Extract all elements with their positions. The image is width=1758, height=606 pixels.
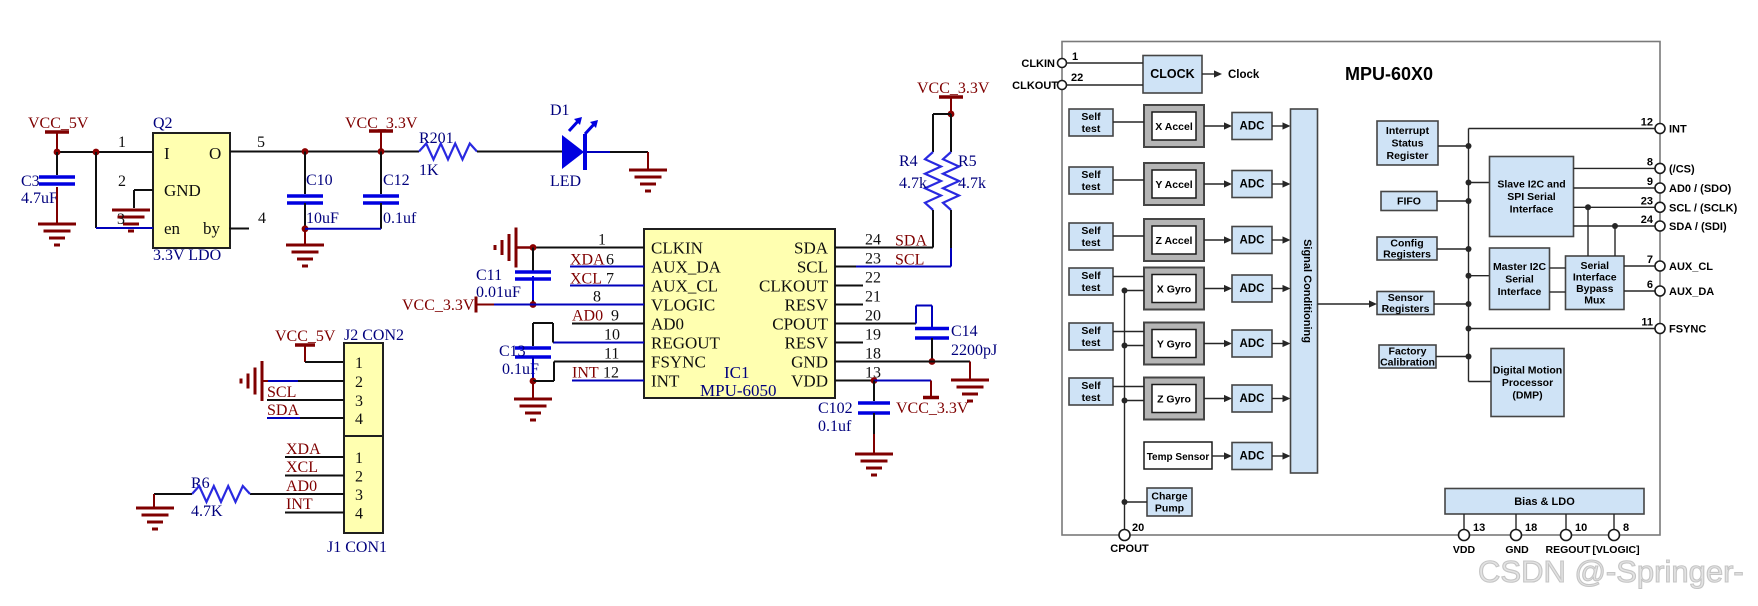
svg-text:VDD: VDD [791, 372, 828, 391]
svg-text:VCC_3.3V: VCC_3.3V [917, 80, 990, 97]
svg-text:CPOUT: CPOUT [772, 315, 828, 334]
svg-text:R5: R5 [958, 153, 977, 170]
svg-text:Z Gyro: Z Gyro [1157, 394, 1191, 406]
svg-text:C14: C14 [951, 323, 978, 340]
svg-text:ADC: ADC [1240, 235, 1265, 247]
svg-text:0.1uf: 0.1uf [818, 418, 852, 435]
svg-text:Y Accel: Y Accel [1155, 179, 1192, 191]
svg-text:9: 9 [611, 308, 619, 325]
svg-text:C10: C10 [306, 172, 333, 189]
svg-text:8: 8 [1647, 156, 1653, 168]
svg-text:11: 11 [604, 346, 619, 363]
svg-text:4: 4 [258, 210, 266, 227]
svg-text:0.1uf: 0.1uf [383, 210, 417, 227]
svg-text:23: 23 [1641, 195, 1653, 207]
svg-text:4.7k: 4.7k [899, 175, 927, 192]
svg-text:22: 22 [865, 270, 881, 287]
svg-text:ADC: ADC [1240, 451, 1265, 463]
svg-text:C11: C11 [476, 267, 502, 284]
svg-text:Serial: Serial [1505, 273, 1534, 285]
svg-text:INT: INT [286, 496, 313, 513]
svg-text:FIFO: FIFO [1397, 196, 1421, 208]
svg-text:11: 11 [1641, 317, 1653, 329]
svg-text:X Gyro: X Gyro [1157, 284, 1191, 296]
svg-text:1: 1 [355, 355, 363, 372]
svg-text:SCL: SCL [267, 384, 296, 401]
svg-text:3: 3 [355, 393, 363, 410]
svg-text:Temp Sensor: Temp Sensor [1147, 452, 1210, 463]
svg-text:O: O [209, 144, 221, 163]
svg-text:Slave I2C and: Slave I2C and [1497, 179, 1565, 191]
svg-text:1: 1 [1072, 51, 1078, 63]
svg-text:Self: Self [1081, 111, 1101, 123]
svg-text:SDA / (SDI): SDA / (SDI) [1669, 221, 1727, 233]
svg-text:C12: C12 [383, 172, 410, 189]
svg-text:2: 2 [355, 469, 363, 486]
svg-text:INT: INT [651, 372, 680, 391]
svg-text:CLKOUT: CLKOUT [759, 277, 829, 296]
svg-text:Self: Self [1081, 169, 1101, 181]
svg-text:9: 9 [1647, 176, 1653, 188]
svg-text:Y Gyro: Y Gyro [1157, 339, 1191, 351]
svg-text:AUX_CL: AUX_CL [651, 277, 718, 296]
svg-text:J1 CON1: J1 CON1 [327, 539, 387, 556]
svg-text:Q2: Q2 [153, 115, 173, 132]
svg-text:Calibration: Calibration [1380, 357, 1435, 369]
svg-text:Bias & LDO: Bias & LDO [1514, 496, 1575, 508]
svg-text:Interrupt: Interrupt [1386, 125, 1430, 137]
svg-text:test: test [1082, 237, 1101, 249]
svg-text:ADC: ADC [1240, 393, 1265, 405]
svg-text:4.7k: 4.7k [958, 175, 986, 192]
svg-text:REGOUT: REGOUT [651, 334, 721, 353]
svg-text:12: 12 [603, 365, 619, 382]
svg-text:GND: GND [164, 181, 201, 200]
svg-text:ADC: ADC [1240, 338, 1265, 350]
svg-text:Self: Self [1081, 270, 1101, 282]
svg-text:test: test [1082, 123, 1101, 135]
svg-text:24: 24 [1641, 214, 1654, 226]
svg-text:20: 20 [865, 308, 881, 325]
svg-text:Self: Self [1081, 380, 1101, 392]
svg-text:12: 12 [1641, 117, 1653, 129]
svg-text:Signal Conditioning: Signal Conditioning [1301, 239, 1313, 343]
svg-text:VCC_3.3V: VCC_3.3V [402, 297, 475, 314]
svg-text:CSDN @-Springer-: CSDN @-Springer- [1478, 554, 1744, 589]
svg-text:10: 10 [604, 327, 620, 344]
svg-text:(DMP): (DMP) [1512, 390, 1542, 402]
svg-text:test: test [1082, 392, 1101, 404]
svg-text:Clock: Clock [1228, 69, 1260, 81]
svg-text:en: en [164, 219, 181, 238]
svg-text:Serial: Serial [1580, 260, 1609, 272]
svg-text:Registers: Registers [1382, 303, 1430, 315]
svg-text:VLOGIC: VLOGIC [651, 296, 715, 315]
svg-text:7: 7 [1647, 254, 1653, 266]
svg-text:CLKOUT: CLKOUT [1012, 80, 1058, 92]
svg-text:AD0: AD0 [651, 315, 684, 334]
svg-text:X Accel: X Accel [1155, 121, 1193, 133]
svg-text:VDD: VDD [1453, 544, 1476, 556]
svg-text:FSYNC: FSYNC [651, 353, 706, 372]
svg-text:1K: 1K [419, 162, 439, 179]
svg-text:ADC: ADC [1240, 179, 1265, 191]
svg-text:3: 3 [355, 487, 363, 504]
svg-text:test: test [1082, 181, 1101, 193]
svg-text:8: 8 [1623, 522, 1629, 534]
svg-text:I: I [164, 144, 170, 163]
svg-text:C3: C3 [21, 173, 40, 190]
svg-text:VCC_5V: VCC_5V [275, 328, 336, 345]
svg-text:RESV: RESV [785, 296, 829, 315]
svg-text:AUX_CL: AUX_CL [1669, 261, 1713, 273]
svg-text:SDA: SDA [267, 402, 299, 419]
svg-text:Self: Self [1081, 325, 1101, 337]
svg-text:FSYNC: FSYNC [1669, 324, 1706, 336]
svg-text:test: test [1082, 282, 1101, 294]
svg-text:18: 18 [865, 346, 881, 363]
svg-text:XCL: XCL [286, 459, 318, 476]
svg-text:22: 22 [1071, 72, 1083, 84]
svg-text:ADC: ADC [1240, 121, 1265, 133]
svg-text:AUX_DA: AUX_DA [651, 258, 722, 277]
svg-text:23: 23 [865, 251, 881, 268]
svg-text:R4: R4 [899, 153, 918, 170]
svg-text:Self: Self [1081, 225, 1101, 237]
svg-text:by: by [203, 219, 221, 238]
svg-text:1: 1 [598, 232, 606, 249]
svg-text:INT: INT [1669, 124, 1687, 136]
svg-text:Charge: Charge [1151, 491, 1187, 503]
svg-text:4.7uF: 4.7uF [21, 190, 58, 207]
svg-text:C13: C13 [499, 343, 526, 360]
svg-text:MPU-60X0: MPU-60X0 [1345, 64, 1433, 84]
svg-text:Register: Register [1386, 150, 1428, 162]
svg-text:VCC_3.3V: VCC_3.3V [896, 400, 969, 417]
svg-text:Bypass: Bypass [1576, 283, 1614, 295]
svg-text:Interface: Interface [1573, 272, 1617, 284]
svg-text:13: 13 [1473, 522, 1485, 534]
svg-text:INT: INT [572, 365, 599, 382]
svg-text:2: 2 [118, 173, 126, 190]
svg-text:RESV: RESV [785, 334, 829, 353]
svg-text:C102: C102 [818, 400, 853, 417]
svg-text:AD0: AD0 [572, 308, 603, 325]
svg-text:LED: LED [550, 173, 581, 190]
svg-text:1: 1 [355, 450, 363, 467]
svg-text:10uF: 10uF [306, 210, 339, 227]
svg-text:AD0: AD0 [286, 478, 317, 495]
svg-text:2200pJ: 2200pJ [951, 342, 997, 359]
svg-text:D1: D1 [550, 102, 570, 119]
svg-text:4.7K: 4.7K [191, 503, 223, 520]
svg-text:SCL / (SCLK): SCL / (SCLK) [1669, 202, 1738, 214]
svg-text:Interface: Interface [1498, 286, 1542, 298]
svg-text:J2 CON2: J2 CON2 [344, 327, 404, 344]
svg-text:21: 21 [865, 289, 881, 306]
svg-text:8: 8 [593, 289, 601, 306]
svg-text:(/CS): (/CS) [1669, 163, 1695, 175]
svg-text:18: 18 [1525, 522, 1537, 534]
svg-text:Digital Motion: Digital Motion [1493, 365, 1562, 377]
svg-text:3: 3 [117, 211, 125, 228]
svg-text:Master I2C: Master I2C [1493, 261, 1547, 273]
svg-text:test: test [1082, 337, 1101, 349]
svg-text:1: 1 [118, 134, 126, 151]
svg-text:SCL: SCL [797, 258, 828, 277]
svg-text:MPU-6050: MPU-6050 [700, 381, 777, 400]
svg-text:20: 20 [1132, 522, 1144, 534]
svg-text:19: 19 [865, 327, 881, 344]
svg-text:2: 2 [355, 374, 363, 391]
svg-text:0.01uF: 0.01uF [476, 284, 521, 301]
svg-text:CPOUT: CPOUT [1110, 543, 1149, 555]
svg-text:CLKIN: CLKIN [651, 239, 703, 258]
svg-text:CLKIN: CLKIN [1021, 58, 1055, 70]
svg-text:CLOCK: CLOCK [1150, 67, 1194, 81]
svg-text:5: 5 [257, 134, 265, 151]
svg-text:VCC_5V: VCC_5V [28, 115, 89, 132]
svg-text:Status: Status [1391, 138, 1423, 150]
svg-text:SDA: SDA [794, 239, 829, 258]
svg-text:IC1: IC1 [724, 363, 750, 382]
svg-text:ADC: ADC [1240, 283, 1265, 295]
svg-text:Interface: Interface [1510, 204, 1554, 216]
svg-text:Registers: Registers [1383, 249, 1431, 261]
svg-text:3.3V LDO: 3.3V LDO [153, 247, 221, 264]
svg-text:AD0 / (SDO): AD0 / (SDO) [1669, 183, 1732, 195]
svg-text:4: 4 [355, 506, 363, 523]
svg-text:4: 4 [355, 411, 363, 428]
svg-text:SPI Serial: SPI Serial [1507, 191, 1556, 203]
svg-text:Mux: Mux [1584, 295, 1605, 307]
svg-text:GND: GND [791, 353, 828, 372]
svg-text:XDA: XDA [286, 441, 321, 458]
svg-text:Z Accel: Z Accel [1156, 235, 1193, 247]
svg-text:24: 24 [865, 232, 881, 249]
svg-text:10: 10 [1575, 522, 1587, 534]
svg-text:AUX_DA: AUX_DA [1669, 286, 1714, 298]
svg-text:Processor: Processor [1502, 377, 1553, 389]
svg-text:Pump: Pump [1155, 503, 1184, 515]
svg-text:6: 6 [1647, 279, 1653, 291]
